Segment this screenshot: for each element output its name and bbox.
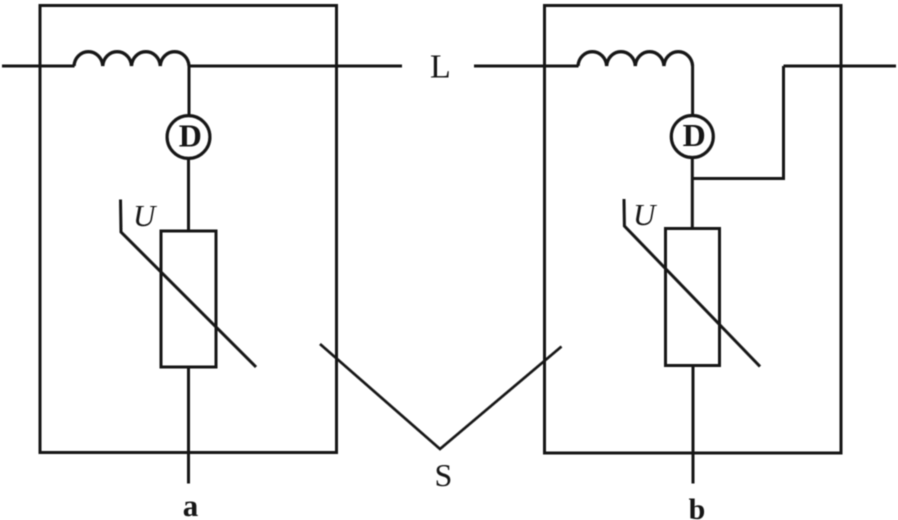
svg-text:D: D: [179, 117, 202, 153]
svg-text:D: D: [683, 117, 706, 153]
svg-text:U: U: [133, 198, 158, 233]
svg-text:U: U: [633, 197, 658, 232]
svg-text:a: a: [183, 488, 199, 520]
svg-text:b: b: [689, 493, 706, 520]
svg-text:S: S: [435, 457, 453, 493]
svg-text:L: L: [430, 49, 451, 86]
